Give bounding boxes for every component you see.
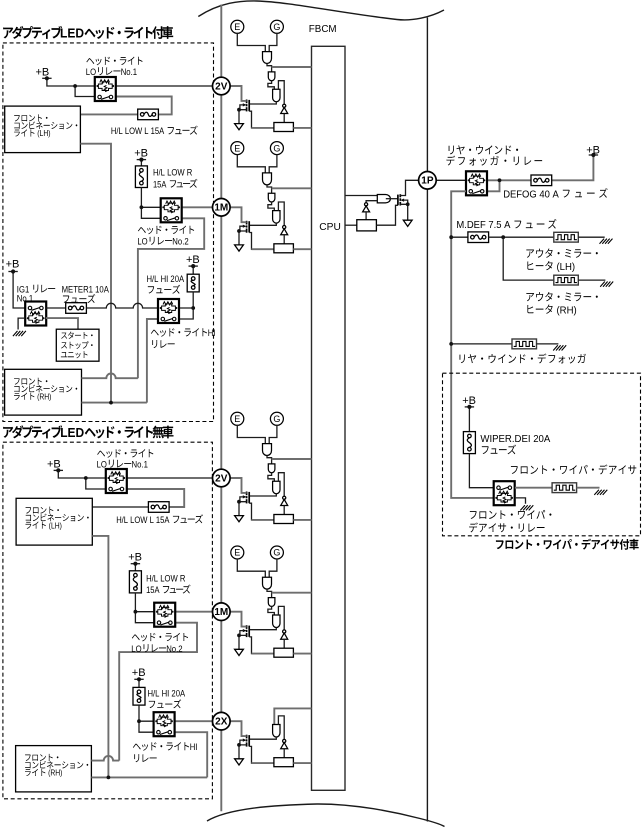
wire gate a to b 2Vu (267, 64, 272, 72)
wire E input 1Ml (237, 559, 265, 577)
wire relay switch to de-icer heater (515, 487, 552, 489)
label METER1 line2 (63, 294, 95, 303)
wire resistor to CPU 1Mu (293, 248, 311, 250)
wire gate b to c 1Ml (268, 606, 274, 615)
wire RH box to relay No.2 bus upper (hop) (82, 374, 138, 379)
heater element outer mirror LH (554, 232, 579, 242)
resistor R-1Mu (274, 244, 294, 253)
relay headlight HI lower box (154, 712, 175, 736)
wire IG1 coil to ground (18, 318, 25, 329)
MOSFET body arrow 1P (401, 199, 405, 202)
wire resistor to CPU 2Xl (293, 762, 311, 764)
relay headlight HI lower switch contact (157, 730, 161, 734)
wire feedback to gate 2Vu (278, 81, 284, 105)
svg-text:G: G (273, 22, 280, 32)
svg-text:LO: LO (131, 644, 141, 655)
relay front wiper de-icer coil (499, 491, 509, 494)
label defogger relay line2 (446, 156, 542, 166)
wire relay No.2 coil to 1M upper (182, 206, 213, 208)
svg-text:No.1: No.1 (17, 293, 33, 304)
label relay No.2 upper line1 (138, 226, 194, 235)
node relay No.1 feed lower (84, 476, 88, 480)
MOSFET 1P (397, 195, 399, 206)
label METER1 line1 (62, 284, 110, 295)
svg-text:+B: +B (132, 667, 146, 679)
connector pin 1M (213, 199, 231, 217)
inverter 1Mu (283, 226, 286, 229)
wire +B to relay No.1 coil lower (58, 470, 107, 478)
wire fuse HI to relay coil lower (139, 705, 154, 721)
label fuse LOW R upper line2 (153, 179, 197, 191)
connector pin 2V (213, 469, 231, 487)
resistor R-2Vu (274, 123, 294, 132)
svg-text:(LH): (LH) (47, 520, 62, 530)
chassis ground wiper relay (520, 505, 533, 510)
svg-text:+B: +B (462, 395, 476, 407)
svg-text:LO: LO (97, 459, 107, 470)
wire inverter input 2Vu (283, 114, 285, 123)
FBCM right edge (426, 18, 428, 822)
wire gate c output 1Ml (249, 628, 276, 630)
wire supply from pin 1Ml (230, 612, 247, 627)
svg-text:E: E (234, 414, 240, 424)
CPU box (312, 46, 346, 790)
svg-text:No.2: No.2 (172, 236, 188, 247)
label relay HI upper line2 (152, 340, 174, 348)
svg-text:METER1 10A: METER1 10A (62, 284, 110, 295)
MOSFET body arrow 2Xl (243, 739, 247, 742)
label fuse HI upper line1 (147, 274, 185, 285)
svg-text:CPU: CPU (319, 222, 341, 233)
node relay No.2 feed lower (134, 610, 138, 614)
+B supply fuse LOW R upper (137, 159, 146, 161)
relay headlight LO No.1 upper switch contact (98, 95, 102, 99)
wire fuse to relay No.2 upper (141, 188, 160, 208)
label mirror LH line1 (526, 249, 598, 258)
upper section dashed border (3, 43, 214, 422)
front combination light RH box upper (5, 369, 82, 415)
label IG1 line2 (17, 293, 33, 304)
wire sense gray 1Mu (252, 248, 274, 250)
node relay No.2 feed upper (140, 205, 144, 209)
resistor R-1Ml (274, 648, 294, 657)
ground (open triangle) 1Mu (235, 245, 244, 251)
svg-text:M.DEF 7.5 A: M.DEF 7.5 A (456, 220, 513, 231)
label de-icer relay line2 (469, 522, 544, 532)
svg-text:H/L LOW L 15A: H/L LOW L 15A (111, 126, 166, 137)
inverter 1Ml (283, 630, 286, 633)
signal circle E (231, 412, 244, 425)
logic gate U-1Ml-b (268, 598, 275, 607)
label IG1 line1 (17, 284, 55, 295)
fuse H/L LOW R 15A upper (135, 166, 147, 188)
wire relay HI coil to 2X lower (175, 720, 213, 722)
wire gate c output 2Xl (249, 737, 276, 739)
signal circle G (270, 546, 283, 559)
wire source to ground 1P (400, 204, 407, 220)
wire supply from pin 2Xl (230, 721, 247, 736)
heater element outer mirror RH (554, 275, 579, 285)
svg-text:+B: +B (134, 147, 148, 159)
fuse H/L HI 20A lower (133, 687, 145, 705)
logic gate U-2Xl-c (273, 725, 280, 737)
wire sense 2Vl (249, 503, 274, 520)
svg-text:WIPER.DEI 20A: WIPER.DEI 20A (480, 434, 550, 445)
AND gate 1P (377, 195, 390, 203)
wire sense 1Ml (249, 637, 274, 654)
connector pin 2X (213, 712, 231, 730)
svg-text:(LH): (LH) (554, 262, 575, 273)
label relay No.2 lower line1 (132, 633, 188, 642)
node rear defogger tap (449, 342, 453, 346)
label WIPER fuse line1 (480, 434, 550, 445)
label fuse HI lower line2 (149, 699, 181, 708)
MOSFET 2Vu (248, 100, 250, 111)
fuse WIPER.DEI 20A (463, 432, 475, 454)
relay front wiper de-icer box (494, 481, 515, 505)
label fuse LOW L lower (116, 514, 203, 526)
relay headlight LO No.1 upper coil (100, 80, 110, 83)
svg-text:G: G (273, 143, 280, 153)
node source 2Vu (237, 108, 241, 112)
chassis ground mirror RH (600, 282, 613, 287)
node mirror heater split (501, 235, 505, 239)
fuse H/L LOW R 15A lower (129, 571, 141, 593)
wire from CPU (control) 2Xl (274, 708, 311, 724)
logic gate U-1Mu-a (263, 173, 272, 185)
wire supply from pin 1Mu (230, 207, 247, 222)
wire sense gray 2Vu (252, 127, 274, 129)
wire feedback to gate 2Vl (278, 473, 284, 497)
wire sense 2Vu (249, 111, 274, 128)
chassis ground IG1 (13, 331, 26, 336)
wire defogger switch bus (451, 191, 494, 498)
+B supply headlight relay lower (54, 469, 63, 471)
wire inverter input 1P (365, 212, 367, 220)
node source 1Ml (237, 634, 241, 638)
wire source to ground 1Ml (239, 635, 247, 649)
wire E input 2Vl (237, 425, 265, 443)
label fuse LOW L upper (111, 126, 198, 138)
lower section dashed border (3, 442, 213, 799)
wire inverter input 1Ml (283, 639, 285, 648)
svg-text:+B: +B (186, 254, 200, 266)
wire feedback to gate 2Xl (278, 716, 284, 740)
svg-text:(RH): (RH) (46, 768, 62, 778)
wire IG1 coil to start-stop unit (46, 318, 78, 329)
svg-text:1M: 1M (214, 607, 228, 618)
inverter 2Xl (283, 739, 286, 742)
logic gate U-1Ml-a (263, 577, 272, 589)
wire relay No.2 coil to 1M lower (175, 611, 212, 613)
wire relay coil to ground (515, 498, 526, 504)
wire G input 2Vu (269, 33, 277, 51)
wire LH box bus upper (80, 144, 111, 403)
svg-text:No.2: No.2 (166, 644, 182, 655)
label relay No.1 lower line1 (97, 449, 153, 458)
+B supply IG1 (8, 271, 17, 273)
logic gate U-2Vl-c (273, 481, 280, 493)
wire inverter to AND 1P (366, 201, 377, 203)
wire relay No.1 switch to fuse lower (92, 489, 184, 507)
svg-text:HI: HI (190, 742, 198, 753)
relay IG1 No.1 coil (30, 312, 40, 315)
wire defogger switch right to junction (487, 180, 499, 191)
wire 1P to defogger relay coil (436, 179, 466, 181)
ground (open triangle) 1P (403, 220, 412, 226)
relay headlight LO No.2 lower box (154, 603, 175, 627)
fuse M.DEF 7.5A (468, 232, 489, 243)
svg-text:LED: LED (60, 26, 84, 41)
svg-text:No.1: No.1 (121, 67, 137, 78)
relay headlight LO No.1 lower switch contact (109, 487, 113, 491)
wire DEFOG fuse to +B (552, 155, 594, 180)
chassis ground rear defogger (553, 345, 566, 350)
MOSFET 2Vl (248, 492, 250, 503)
relay headlight HI upper coil (163, 302, 173, 305)
wire resistor to CPU 1Ml (293, 653, 311, 655)
heater element front wiper de-icer (552, 483, 577, 493)
wire supply from pin 2Vu (230, 86, 247, 101)
wire junction to relay No.2 switch lower (135, 612, 154, 623)
wire E input 2Vu (237, 33, 265, 51)
wire AND to MOSFET gate 1P (386, 198, 398, 200)
logic gate U-2Vl-b (268, 464, 275, 473)
svg-text:+B: +B (128, 552, 142, 564)
label relay No.1 upper line2 (86, 67, 137, 78)
logic gate U-1Ml-c (273, 615, 280, 627)
label fuse HI upper line2 (148, 285, 180, 294)
wire source to ground 2Xl (239, 745, 247, 759)
FBCM top torn edge (198, 1, 444, 20)
wire CPU to AND gate 1P (345, 195, 377, 197)
label relay No.2 lower line2 (131, 644, 182, 655)
wire junction to relay No.1 switch upper (75, 86, 97, 97)
relay headlight LO No.1 upper box (95, 77, 116, 101)
connector pin 1P (419, 172, 437, 190)
MOSFET 1Ml (248, 626, 250, 637)
chassis ground wiper heater (594, 490, 607, 495)
wire resistor to MOSFET gate 1P (376, 205, 398, 225)
svg-text:+B: +B (47, 459, 61, 471)
wire source to ground 1Mu (239, 231, 247, 245)
svg-text:1P: 1P (421, 176, 434, 187)
relay headlight HI upper switch contact (161, 317, 165, 321)
signal circle E (231, 20, 244, 33)
wire source to ground 2Vu (239, 110, 247, 124)
label rear defogger (460, 353, 586, 363)
wire WIPER fuse to relay switch (469, 454, 493, 488)
label relay HI lower line1 (133, 742, 198, 753)
wire fuse to relay No.2 lower (135, 593, 154, 612)
svg-text:+B: +B (586, 144, 600, 156)
svg-text:(RH): (RH) (35, 392, 51, 402)
node relay HI feed upper (191, 306, 195, 310)
relay headlight LO No.2 upper coil (166, 201, 176, 204)
signal circle E (231, 142, 244, 155)
+B supply WIPER (465, 406, 474, 408)
svg-text:15A: 15A (153, 179, 169, 190)
ground (open triangle) 2Xl (235, 759, 244, 765)
wire relay No.2 switch bus upper (138, 218, 204, 378)
relay rear window defogger box (466, 171, 487, 195)
MOSFET body arrow 1Mu (243, 225, 247, 228)
label M.DEF fuse (456, 219, 556, 231)
wire to mirror heater RH (503, 237, 554, 280)
wire to CPU (control) 1Mu (272, 187, 312, 189)
label WIPER fuse line2 (482, 445, 516, 455)
wire inverter input 2Vl (283, 506, 285, 515)
MOSFET 2Xl (248, 735, 250, 746)
svg-text:FBCM: FBCM (309, 24, 337, 35)
heater element rear window defogger (512, 339, 537, 349)
wire heater RH to ground (578, 279, 605, 281)
label defogger relay line1 (449, 145, 519, 154)
ground (open triangle) 2Vu (235, 124, 244, 130)
resistor R-2Vl (274, 515, 294, 524)
svg-text:DEFOG 40 A: DEFOG 40 A (503, 189, 561, 200)
relay rear window defogger coil (471, 174, 481, 177)
wire de-icer heater to ground (577, 487, 600, 489)
resistor R-2Xl (274, 758, 294, 767)
wire +B to fuse LOW R upper (140, 160, 142, 166)
wire gate a to b 1Mu (267, 185, 272, 193)
wire +B to IG1 relay (13, 272, 25, 309)
wire fuse HI to relay coil right upper (179, 292, 193, 308)
wire gate a to b 2Vl (267, 456, 272, 464)
wire relay HI switch bus lower (175, 732, 208, 777)
relay headlight LO No.2 lower coil (159, 605, 169, 608)
front combination light LH box upper (5, 106, 81, 153)
relay headlight LO No.1 lower coil (111, 472, 121, 475)
wire relay HI switch bus upper (147, 319, 158, 403)
label fuse LOW R lower line2 (146, 585, 190, 597)
wire RH box to relay HI bus upper (82, 402, 147, 404)
svg-text:LO: LO (137, 236, 147, 247)
wire relay No.1 switch to fuse upper (80, 97, 171, 115)
signal circle E (231, 546, 244, 559)
wire resistor to CPU 2Vl (293, 519, 311, 521)
wire junction to relay HI switch right upper (179, 308, 193, 319)
wire junction to relay No.2 switch upper (141, 207, 160, 218)
wire sense 1Mu (249, 233, 274, 250)
MOSFET body arrow 2Vl (243, 495, 247, 498)
label de-icer heater (511, 464, 636, 474)
svg-text:1M: 1M (214, 203, 228, 214)
label fuse LOW R lower line1 (146, 573, 185, 584)
wire junction to relay HI switch lower (139, 721, 154, 732)
wire G input 1Ml (269, 559, 277, 577)
wire heater LH to ground (578, 236, 604, 238)
node source 2Vl (237, 500, 241, 504)
logic gate U-2Vu-b (268, 72, 275, 81)
wire gate b to c 2Vu (268, 81, 274, 90)
relay headlight HI upper box (158, 299, 179, 323)
wire defogger coil to fuse junction (487, 179, 531, 181)
fuse H/L HI 20A upper (187, 274, 199, 292)
MOSFET 1Mu (248, 221, 250, 232)
label relay No.1 lower line2 (97, 459, 148, 470)
svg-text:LO: LO (86, 67, 96, 78)
svg-text:E: E (234, 143, 240, 153)
svg-text:H/L LOW R: H/L LOW R (146, 573, 185, 584)
wire feedback to gate 1Ml (278, 606, 284, 630)
wire sense gray 2Xl (252, 762, 274, 764)
front combination light LH box lower (16, 498, 92, 545)
wire G input 2Vl (269, 425, 277, 443)
label fuse HI lower line1 (148, 689, 186, 700)
wire M.DEF fuse run (451, 236, 468, 238)
ground (open triangle) 1Ml (235, 649, 244, 655)
svg-text:+B: +B (36, 67, 50, 79)
node LH bus join lower (107, 776, 111, 780)
inverter 2Vl (283, 496, 286, 499)
wire +B to fuse LOW R lower (134, 564, 136, 571)
svg-text:H/L HI 20A: H/L HI 20A (147, 274, 185, 285)
wire M.DEF to mirror heater LH (489, 236, 554, 238)
wire relay No.1 coil to 2V lower (127, 477, 213, 479)
svg-text:E: E (234, 22, 240, 32)
wire IG1 switch to METER1 fuse (46, 307, 66, 309)
svg-text:2X: 2X (215, 717, 228, 728)
wire sense 2Xl (249, 746, 274, 763)
FBCM bottom torn edge (207, 804, 445, 827)
chassis ground mirror LH (600, 239, 613, 244)
logic gate U-2Vu-c (273, 89, 280, 101)
wire CPU to resistor 1P (345, 224, 357, 226)
label relay HI upper line1 (151, 328, 216, 339)
label fuse LOW R upper line1 (153, 168, 192, 179)
wiper de-icer dashed border (443, 373, 641, 536)
node LH bus join upper (109, 401, 113, 405)
svg-text:E: E (234, 548, 240, 558)
svg-text:H/L LOW R: H/L LOW R (153, 168, 192, 179)
signal circle G (270, 412, 283, 425)
wire relay No.1 coil to 2V upper (116, 85, 213, 87)
logic gate U-1Mu-c (273, 211, 280, 223)
caption: with front wiper de-icer (496, 539, 639, 550)
label relay No.1 upper line1 (86, 57, 142, 66)
wire RH box to relay No.2 bus lower (hop) (91, 756, 119, 761)
FBCM left edge (220, 5, 222, 812)
relay headlight HI lower coil (159, 715, 169, 718)
wire drain to pin 1P (400, 180, 418, 195)
svg-text:15A: 15A (146, 585, 162, 596)
wire to CPU (control) 2Vl (272, 458, 312, 460)
svg-text:HI: HI (208, 328, 216, 339)
wire gate c output 2Vu (249, 102, 276, 104)
wire inverter input 1Mu (283, 235, 285, 244)
relay IG1 No.1 switch contact (28, 306, 32, 310)
node M.DEF tap (449, 235, 453, 239)
node source 2Xl (237, 743, 241, 747)
+B supply fuse HI lower (134, 678, 143, 680)
wire inverter input 2Xl (283, 749, 285, 758)
wire to CPU (control) 1Ml (272, 592, 312, 594)
svg-text:G: G (273, 414, 280, 424)
label mirror RH line1 (526, 292, 598, 301)
relay front wiper de-icer switch contact (497, 486, 501, 490)
wire gate c output 1Mu (249, 223, 276, 225)
svg-text:H/L HI 20A: H/L HI 20A (148, 689, 186, 700)
relay rear window defogger switch contact (469, 190, 473, 194)
relay headlight LO No.2 upper switch contact (164, 217, 168, 221)
section header: adaptive LED headlights not equipped (3, 425, 173, 440)
fuse METER1 10A (66, 303, 87, 314)
wire source to ground 2Vl (239, 502, 247, 516)
signal circle G (270, 142, 283, 155)
logic gate U-2Vu-a (263, 52, 272, 64)
